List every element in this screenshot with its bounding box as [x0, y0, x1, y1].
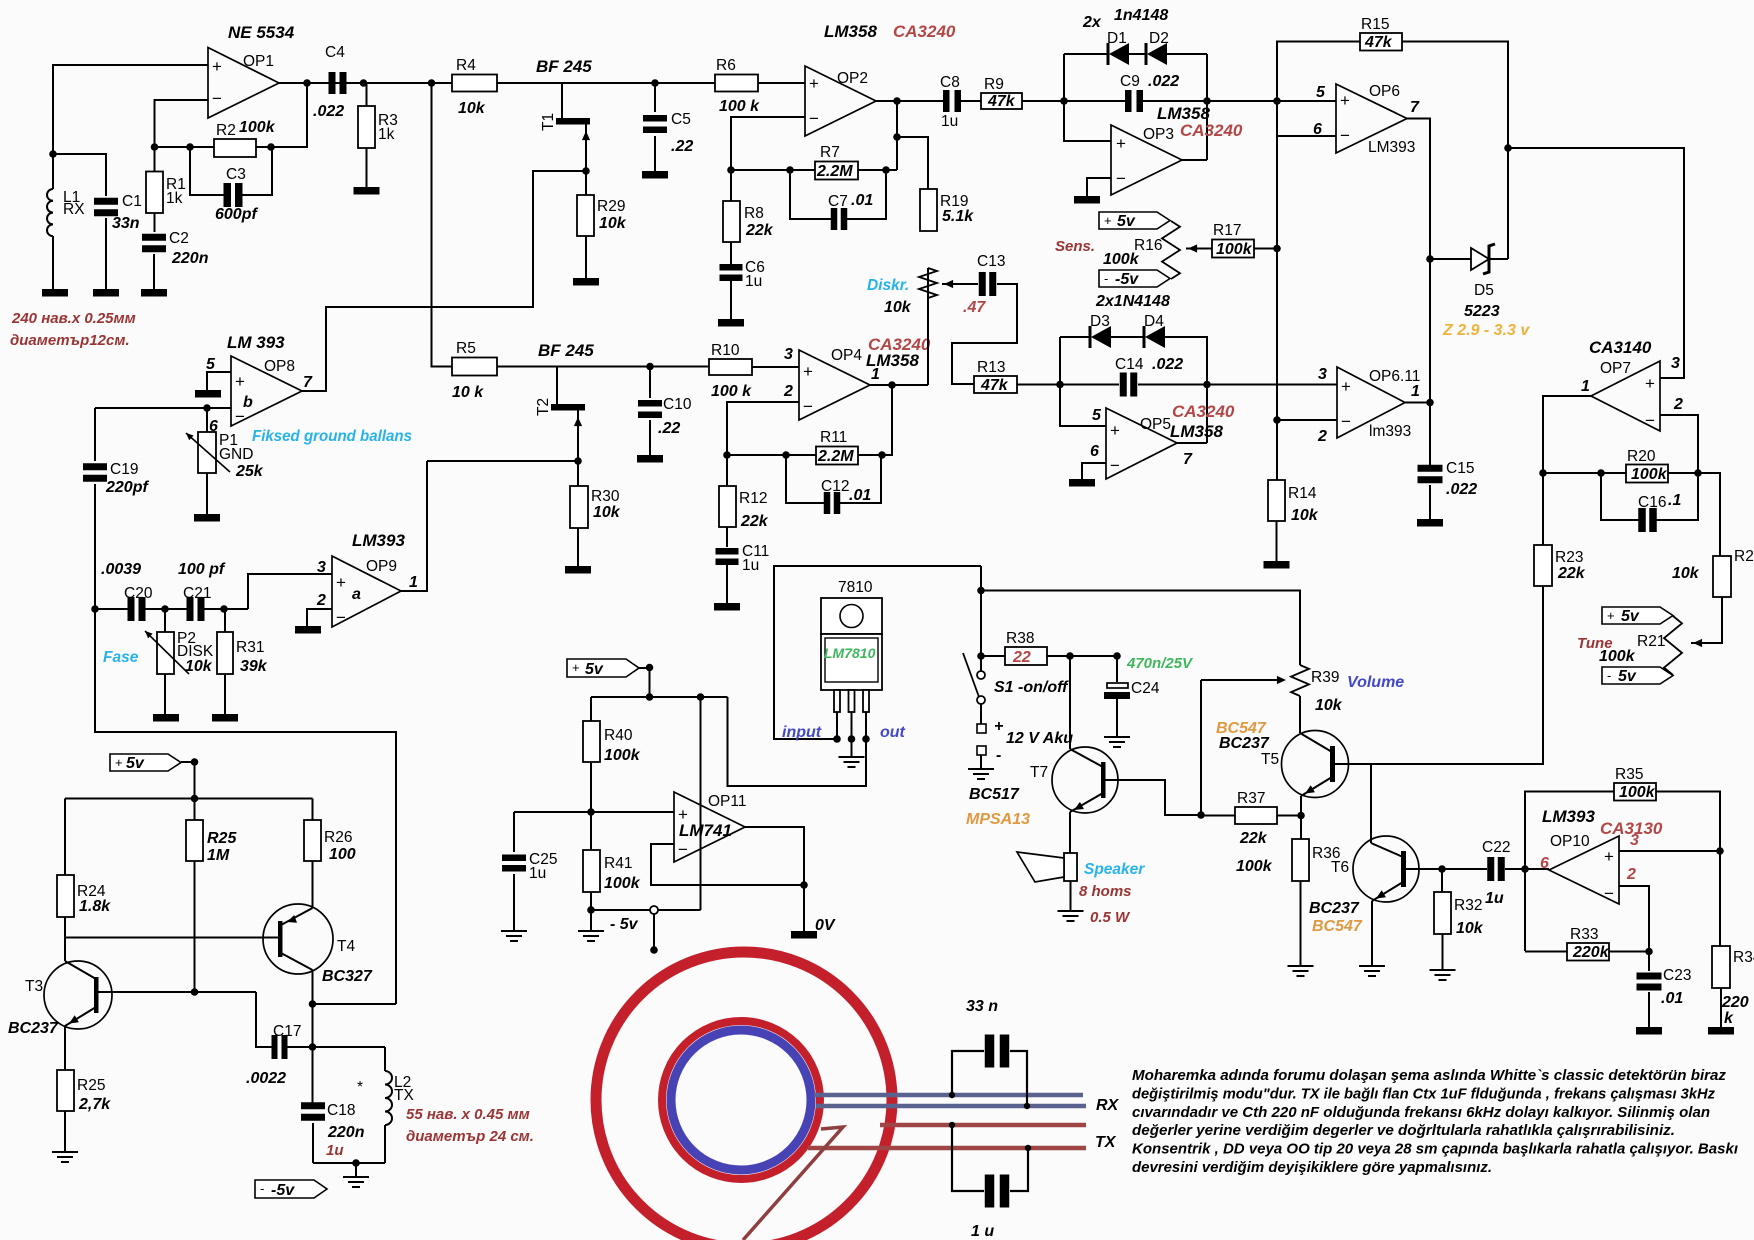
node top feed: [428, 79, 436, 87]
svg-text:2: 2: [1626, 866, 1636, 883]
svg-text:R25: R25: [77, 1077, 105, 1094]
wire out down: [896, 101, 898, 170]
svg-text:5v: 5v: [1618, 668, 1637, 685]
capacitor C9: [1125, 90, 1132, 112]
svg-text:OP10: OP10: [1550, 833, 1590, 850]
svg-text:R34: R34: [1733, 949, 1754, 966]
transistor T5: [1282, 731, 1349, 798]
svg-text:6: 6: [1540, 855, 1549, 872]
svg-text:T3: T3: [25, 978, 43, 995]
svg-text:LM7810: LM7810: [824, 645, 876, 661]
svg-text:22k: 22k: [745, 222, 774, 239]
node T4 col: [309, 1000, 317, 1008]
svg-text:Diskr.: Diskr.: [867, 277, 909, 294]
svg-text:диаметър12см.: диаметър12см.: [10, 332, 130, 349]
svg-text:2.2M: 2.2M: [816, 163, 853, 180]
svg-text:BC237: BC237: [1219, 735, 1270, 752]
resistor R20: [1626, 465, 1668, 483]
svg-text:-: -: [260, 1181, 264, 1196]
wire OP3 out: [1182, 159, 1207, 161]
svg-text:GND: GND: [219, 446, 253, 463]
svg-text:R40: R40: [604, 727, 633, 744]
svg-text:10k: 10k: [1291, 507, 1319, 524]
wire T2 row: [427, 460, 578, 462]
svg-text:+: +: [235, 372, 245, 391]
ground L1: [42, 289, 68, 297]
svg-text:R7: R7: [820, 144, 840, 161]
svg-text:OP6: OP6: [1369, 83, 1400, 100]
svg-text:220k: 220k: [1572, 944, 1610, 961]
resistor R38: [981, 655, 1005, 657]
svg-text:C1: C1: [122, 193, 142, 210]
wire OP6.11 out: [1405, 402, 1430, 404]
transistor T6: [1353, 836, 1419, 902]
node OP10 in: [1521, 865, 1529, 873]
wire diode branch up: [1064, 54, 1111, 141]
resistor R35: [1614, 783, 1656, 801]
svg-text:R33: R33: [1570, 926, 1598, 943]
svg-text:100k: 100k: [604, 747, 641, 764]
svg-text:R8: R8: [744, 205, 764, 222]
svg-text:100 pf: 100 pf: [178, 561, 226, 578]
svg-text:10k: 10k: [599, 215, 627, 232]
resistor R2: [214, 139, 256, 157]
svg-text:CA3240: CA3240: [893, 22, 956, 41]
svg-text:0V: 0V: [815, 917, 836, 934]
resistor R24: [64, 799, 66, 876]
node R32 top: [1438, 865, 1446, 873]
capacitor C7 loop: [790, 170, 831, 219]
svg-text:+: +: [1104, 213, 1112, 228]
svg-text:5v: 5v: [1117, 213, 1136, 230]
wire TX pair: [880, 1123, 1086, 1128]
resistor R14: [1268, 480, 1285, 521]
wire R15 right: [1402, 42, 1508, 260]
wire OP11 out: [745, 827, 804, 932]
node R38 right: [1066, 652, 1074, 660]
wire 7810 input loop: [774, 566, 981, 739]
op-amp OP6.11: [1337, 367, 1405, 438]
svg-text:R14: R14: [1288, 485, 1317, 502]
svg-text:3: 3: [1630, 832, 1639, 849]
svg-text:−: −: [678, 840, 688, 859]
coil drawing inner red ring: [662, 1021, 820, 1179]
op-amp OP11: [674, 792, 745, 862]
diode D4: [1111, 336, 1144, 338]
svg-text:5v: 5v: [126, 755, 145, 772]
ground C11: [714, 603, 740, 611]
svg-text:Sens.: Sens.: [1055, 238, 1095, 255]
node OP6.11 out: [1426, 399, 1434, 407]
diode D1: [1064, 53, 1108, 55]
node C16 right: [1694, 469, 1702, 477]
svg-text:C17: C17: [273, 1023, 301, 1040]
node osc flag: [191, 758, 199, 766]
node R41 bottom: [587, 906, 595, 914]
svg-text:T5: T5: [1261, 751, 1279, 768]
svg-text:D3: D3: [1090, 313, 1110, 330]
wire T6 base: [1406, 868, 1487, 870]
svg-text:100k: 100k: [1619, 784, 1656, 801]
svg-text:220n: 220n: [327, 1124, 365, 1141]
svg-text:NE 5534: NE 5534: [228, 23, 295, 42]
svg-text:1n4148: 1n4148: [1114, 7, 1168, 24]
node R38 left: [977, 652, 985, 660]
svg-text:R2: R2: [216, 122, 236, 139]
wire R35 right: [1656, 792, 1720, 852]
resistor R30: [577, 461, 579, 486]
pot P2 DISK: [164, 609, 166, 632]
svg-text:C9: C9: [1120, 73, 1140, 90]
speaker: [1064, 853, 1077, 881]
svg-text:T2: T2: [535, 398, 552, 416]
svg-text:1.8k: 1.8k: [79, 898, 111, 915]
svg-text:47k: 47k: [980, 377, 1009, 394]
resistor R13: [974, 376, 1017, 393]
svg-text:C13: C13: [977, 253, 1005, 270]
svg-text:.22: .22: [671, 138, 693, 155]
node pin2: [848, 735, 856, 743]
battery line: [980, 566, 982, 671]
flag -5v sens: [1099, 270, 1170, 287]
capacitor Ctx 1u: [952, 1125, 984, 1191]
wire C19 bottom rail: [95, 609, 396, 1004]
wire osc bottom: [313, 1162, 385, 1164]
wire R22 bottom: [1691, 597, 1722, 643]
svg-text:C24: C24: [1131, 680, 1160, 697]
resistor R26: [312, 799, 314, 821]
transistor T3 BC237: [44, 961, 112, 1029]
svg-text:−: −: [1645, 411, 1655, 430]
capacitor C14: [1120, 373, 1127, 397]
capacitor C23: [1648, 952, 1650, 972]
node bat top: [977, 587, 985, 595]
svg-text:*: *: [357, 1079, 363, 1096]
diode D3: [1060, 336, 1090, 338]
resistor R15: [1360, 33, 1402, 51]
svg-text:k: k: [1724, 1010, 1734, 1027]
svg-text:R31: R31: [236, 639, 264, 656]
cap row C20 C21: [95, 608, 128, 610]
wire rail right down: [700, 697, 702, 910]
svg-text:220pf: 220pf: [105, 479, 149, 496]
svg-text:R35: R35: [1615, 766, 1643, 783]
svg-text:12 V Aku: 12 V Aku: [1006, 730, 1073, 747]
svg-text:.022: .022: [313, 103, 344, 120]
svg-text:−: −: [1340, 126, 1350, 145]
wire zener col: [1206, 54, 1208, 160]
ground R3: [354, 187, 380, 195]
flag +5v tune: [1602, 607, 1673, 624]
svg-text:7: 7: [1410, 99, 1420, 116]
op-amp OP5: [1106, 408, 1177, 479]
svg-text:.47: .47: [963, 299, 986, 316]
svg-text:değerler yerine verdiğim deger: değerler yerine verdiğim degerler ve doğ…: [1132, 1122, 1675, 1139]
ground 0V: [791, 931, 817, 939]
op-amp OP10: [1549, 836, 1619, 904]
svg-text:+: +: [1645, 374, 1655, 393]
svg-text:C16: C16: [1638, 494, 1666, 511]
svg-text:.022: .022: [1446, 481, 1477, 498]
wire C1 bottom: [105, 218, 107, 290]
wire T5 base: [1335, 763, 1543, 765]
svg-text:değiştirilmiş modu"dur. TX ile: değiştirilmiş modu"dur. TX ile bağlı fla…: [1132, 1085, 1715, 1102]
node C23 top: [1645, 948, 1653, 956]
pin 2 gnd: [849, 690, 855, 712]
svg-text:LM393: LM393: [1368, 139, 1415, 156]
svg-text:1: 1: [1581, 378, 1590, 395]
node osc gnd: [352, 1159, 360, 1167]
svg-text:100 k: 100 k: [719, 98, 760, 115]
TX pointer: [743, 1127, 843, 1240]
svg-text:2: 2: [316, 592, 326, 609]
svg-text:OP5: OP5: [1140, 416, 1171, 433]
svg-text:25k: 25k: [235, 463, 264, 480]
svg-text:1u: 1u: [941, 113, 958, 130]
svg-text:C22: C22: [1482, 839, 1510, 856]
svg-text:Moharemka adında forumu dolaşa: Moharemka adında forumu dolaşan şema asl…: [1132, 1067, 1726, 1084]
node pin5: [1273, 97, 1281, 105]
ground 7810: [851, 739, 853, 757]
svg-text:-: -: [1607, 668, 1611, 683]
capacitor C20: [128, 597, 135, 621]
svg-text:LM358: LM358: [824, 22, 877, 41]
ground T3: [52, 1152, 78, 1162]
svg-text:devresini verdiğim deyişikikle: devresini verdiğim deyişikiklere göre ya…: [1132, 1159, 1492, 1176]
svg-text:−: −: [1341, 412, 1351, 431]
svg-text:R26: R26: [324, 829, 352, 846]
row R20: [1543, 472, 1626, 474]
svg-text:3: 3: [784, 346, 793, 363]
svg-text:5v: 5v: [585, 661, 604, 678]
svg-text:R21: R21: [1637, 633, 1665, 650]
node C18 top: [309, 1043, 317, 1051]
wire OP2 output: [876, 100, 943, 102]
ground OP9: [295, 626, 321, 634]
svg-text:R20: R20: [1627, 448, 1656, 465]
resistor R19: [920, 189, 937, 231]
svg-text:10k: 10k: [1315, 697, 1343, 714]
flag +5v sens: [1099, 212, 1170, 229]
svg-text:a: a: [352, 586, 361, 603]
coil drawing outer ring: [596, 952, 892, 1240]
wire 7810 out to +5 rail: [728, 697, 867, 786]
node flag: [646, 664, 654, 672]
wire RX pair: [814, 1093, 1083, 1098]
node C9 right: [1203, 97, 1211, 105]
svg-text:R32: R32: [1454, 897, 1482, 914]
node C9 left: [1060, 97, 1068, 105]
op-amp OP7: [1591, 361, 1660, 431]
node R7 left top: [727, 166, 735, 174]
svg-text:OP7: OP7: [1600, 360, 1631, 377]
wire OP3- gnd: [1087, 178, 1111, 197]
node R40 bottom: [587, 808, 595, 816]
svg-text:BC237: BC237: [8, 1020, 59, 1037]
svg-text:C14: C14: [1115, 356, 1144, 373]
switch S1: [977, 671, 985, 679]
capacitor C18: [301, 1102, 325, 1109]
svg-text:1u: 1u: [742, 557, 759, 574]
wire OP6 pin6: [1277, 135, 1336, 137]
svg-text:2x: 2x: [1082, 14, 1102, 31]
svg-text:-5v: -5v: [271, 1182, 295, 1199]
svg-text:2: 2: [783, 383, 793, 400]
node pin1: [833, 735, 841, 743]
coil L2 TX: [384, 1047, 386, 1071]
wire plus row: [514, 811, 674, 813]
wire OP10 plus: [1619, 850, 1720, 852]
resistor R3: [366, 83, 368, 106]
svg-text:TX: TX: [1095, 1134, 1117, 1151]
node OP1 out: [303, 79, 311, 87]
svg-text:55 нав. х 0.45 мм: 55 нав. х 0.45 мм: [406, 1106, 530, 1123]
svg-text:LM393: LM393: [352, 531, 405, 550]
resistor R5: [452, 358, 497, 376]
svg-text:100k: 100k: [1103, 251, 1140, 268]
resistor R25 1M: [194, 799, 196, 821]
svg-text:22k: 22k: [1557, 565, 1586, 582]
svg-text:1u: 1u: [1485, 890, 1504, 907]
wire feedback row: [155, 146, 215, 148]
ground R41: [578, 931, 604, 941]
svg-text:D5: D5: [1474, 282, 1494, 299]
ground speaker: [1058, 911, 1084, 921]
svg-text:.022: .022: [1148, 73, 1179, 90]
wire R35 left: [1525, 792, 1614, 952]
resistor R29: [585, 171, 587, 195]
node rail1: [646, 693, 654, 701]
node T5 emitter: [1297, 812, 1305, 820]
svg-text:1: 1: [871, 366, 880, 383]
svg-text:R10: R10: [711, 342, 740, 359]
wire OP2- to R8: [731, 117, 805, 201]
svg-text:10k: 10k: [185, 658, 213, 675]
svg-text:BC237: BC237: [1309, 900, 1360, 917]
ground C25: [501, 931, 527, 941]
svg-text:BF 245: BF 245: [536, 57, 592, 76]
svg-text:TX: TX: [394, 1087, 414, 1104]
svg-text:OP1: OP1: [243, 53, 274, 70]
svg-text:5223: 5223: [1464, 303, 1500, 320]
resistor R1: [154, 147, 156, 172]
wire OP4 output: [870, 384, 928, 386]
transistor T7: [1052, 747, 1118, 813]
wire OP9- gnd: [307, 609, 332, 627]
svg-text:1k: 1k: [378, 126, 395, 143]
resistor R23: [1534, 545, 1552, 586]
svg-text:−: −: [1116, 169, 1126, 188]
ground C10: [637, 455, 663, 463]
svg-text:+: +: [1604, 847, 1614, 866]
svg-text:33n: 33n: [112, 215, 140, 232]
svg-text:1u: 1u: [529, 865, 546, 882]
node rail2: [697, 693, 705, 701]
svg-text:−: −: [803, 397, 813, 416]
rail +5: [591, 696, 728, 698]
svg-text:240 нав.х 0.25мм: 240 нав.х 0.25мм: [11, 310, 136, 327]
wire C13 to R13: [952, 284, 1017, 384]
resistor R25b: [57, 1070, 74, 1111]
node L1/C1: [49, 150, 57, 158]
capacitor C24: [1107, 683, 1128, 688]
svg-text:22k: 22k: [740, 513, 769, 530]
svg-text:1 u: 1 u: [971, 1223, 994, 1240]
svg-text:0.5 W: 0.5 W: [1090, 909, 1131, 926]
node D5 left: [1426, 255, 1434, 263]
wire feed to R5: [432, 83, 453, 367]
flag -5v osc: [255, 1180, 327, 1198]
resistor R7: [815, 162, 858, 180]
transistor T1 BF245: [561, 83, 563, 118]
capacitor C22: [1487, 857, 1494, 881]
svg-text:R25: R25: [207, 830, 237, 847]
svg-text:1: 1: [1411, 383, 1420, 400]
svg-text:+: +: [572, 660, 580, 675]
svg-text:R37: R37: [1237, 790, 1265, 807]
svg-text:100k: 100k: [1599, 648, 1636, 665]
wire OP9 output: [401, 461, 427, 591]
svg-text:R30: R30: [591, 488, 620, 505]
wire OP8 output: [302, 171, 533, 391]
wire R15 left: [1277, 42, 1360, 481]
svg-text:T4: T4: [337, 938, 355, 955]
arrow diskr wiper: [942, 283, 978, 285]
pin 3 out: [863, 690, 869, 712]
pot R16: [1162, 221, 1180, 279]
svg-text:2.2M: 2.2M: [817, 448, 854, 465]
svg-text:input: input: [782, 724, 822, 741]
capacitor C3 loop: [190, 147, 224, 195]
svg-text:10k: 10k: [1456, 920, 1484, 937]
svg-text:C18: C18: [327, 1102, 355, 1119]
svg-text:D2: D2: [1149, 30, 1169, 47]
node R11 left: [723, 451, 731, 459]
node T1 source: [582, 167, 590, 175]
wire R13 node up/down: [1060, 337, 1106, 426]
svg-text:LM393: LM393: [1542, 807, 1595, 826]
wire diskr col: [927, 268, 929, 385]
svg-text:5: 5: [206, 356, 216, 373]
capacitor C2: [142, 234, 166, 241]
arrow R16 wiper: [1186, 248, 1212, 250]
svg-text:100k: 100k: [1216, 241, 1253, 258]
resistor R17: [1212, 240, 1254, 258]
svg-text:5v: 5v: [1621, 608, 1640, 625]
svg-text:R13: R13: [977, 359, 1005, 376]
capacitor C13: [979, 272, 986, 296]
svg-text:7810: 7810: [838, 579, 873, 596]
node T2 source: [574, 457, 582, 465]
svg-text:-5v: -5v: [1115, 271, 1139, 288]
svg-text:Fase: Fase: [103, 649, 139, 666]
wire T1 source to R29: [532, 170, 586, 172]
op-amp OP1: [208, 48, 279, 119]
row C14 to OP6.11: [1060, 384, 1119, 386]
ground battery: [968, 769, 994, 779]
ground P2: [153, 714, 179, 722]
wire R5 row: [497, 366, 709, 368]
svg-text:C21: C21: [183, 585, 211, 602]
resistor R41: [583, 850, 600, 892]
svg-text:D4: D4: [1144, 313, 1164, 330]
svg-text:+: +: [212, 57, 222, 76]
wire to OP7 pin3: [1508, 148, 1684, 378]
svg-text:C8: C8: [940, 74, 960, 91]
svg-text:1M: 1M: [207, 847, 230, 864]
svg-text:Fiksed ground ballans: Fiksed ground ballans: [252, 428, 412, 445]
svg-text:C15: C15: [1446, 460, 1474, 477]
